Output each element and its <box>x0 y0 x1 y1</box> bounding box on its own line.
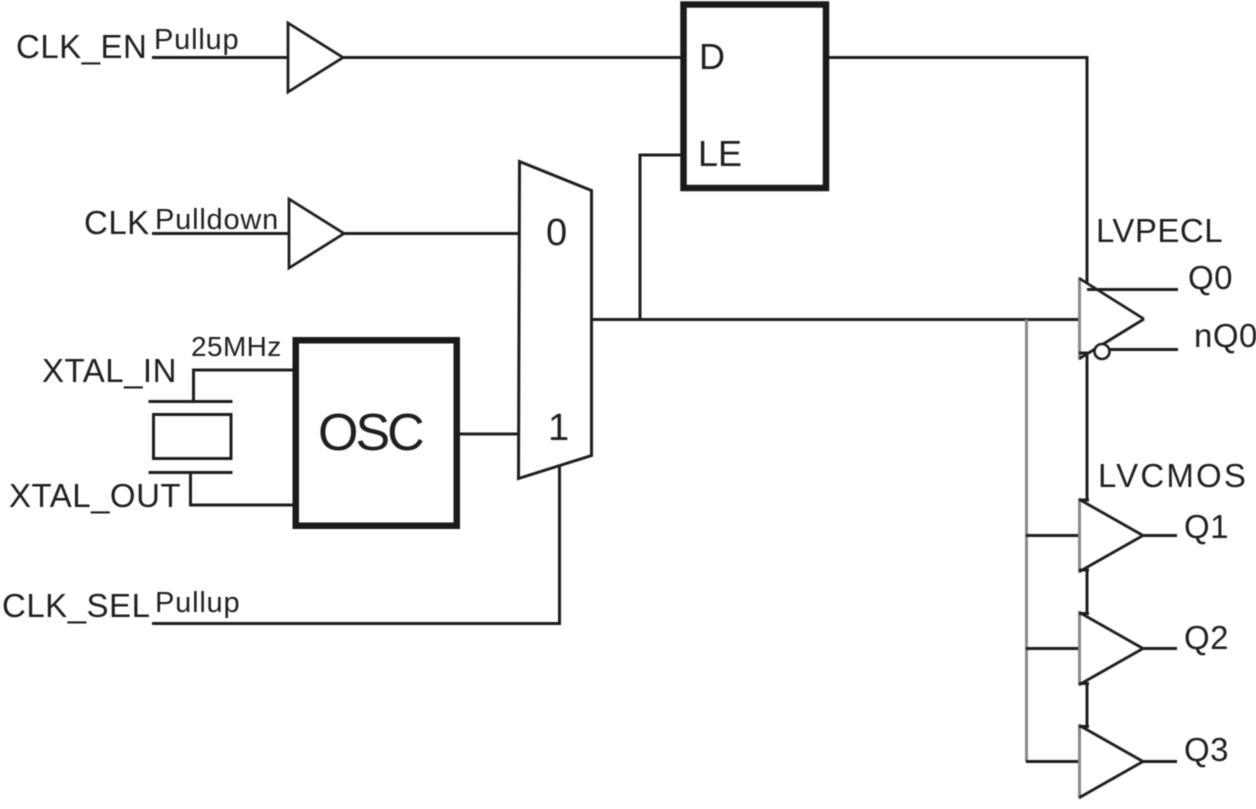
svg-text:LE: LE <box>698 133 742 174</box>
svg-text:Q0: Q0 <box>1188 259 1233 296</box>
svg-text:CLK_EN: CLK_EN <box>16 28 147 65</box>
svg-text:CLK_SEL: CLK_SEL <box>2 587 150 624</box>
svg-text:25MHz: 25MHz <box>191 331 282 362</box>
svg-text:Pulldown: Pulldown <box>155 204 279 236</box>
svg-text:XTAL_OUT: XTAL_OUT <box>9 477 181 514</box>
svg-text:D: D <box>699 36 725 77</box>
svg-text:Pullup: Pullup <box>154 24 239 56</box>
svg-text:0: 0 <box>546 212 567 254</box>
svg-text:OSC: OSC <box>318 404 423 462</box>
svg-text:1: 1 <box>548 407 569 449</box>
svg-text:XTAL_IN: XTAL_IN <box>42 352 177 389</box>
svg-text:nQ0: nQ0 <box>1194 317 1256 354</box>
svg-text:Q1: Q1 <box>1184 508 1229 545</box>
svg-text:Q2: Q2 <box>1184 619 1229 656</box>
svg-text:Q3: Q3 <box>1184 731 1229 768</box>
svg-text:CLK: CLK <box>84 204 150 241</box>
svg-text:LVPECL: LVPECL <box>1096 212 1223 249</box>
svg-text:Pullup: Pullup <box>155 587 240 619</box>
svg-text:LVCMOS: LVCMOS <box>1098 457 1248 494</box>
